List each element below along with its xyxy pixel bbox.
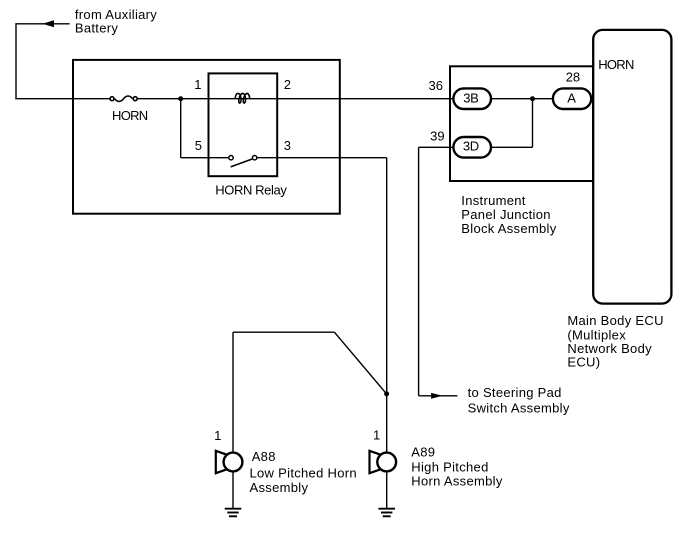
svg-text:ECU): ECU) bbox=[567, 355, 600, 370]
svg-text:36: 36 bbox=[429, 78, 443, 93]
svg-text:High Pitched: High Pitched bbox=[411, 459, 488, 474]
arrowhead pointing left (from Auxiliary Battery) bbox=[43, 20, 55, 27]
power box outline bbox=[73, 60, 340, 214]
wire: battery feed top horizontal bbox=[16, 23, 70, 25]
fuse HORN left terminal circle bbox=[110, 97, 114, 101]
arrowhead pointing right (to steering pad) bbox=[431, 393, 443, 399]
svg-text:Battery: Battery bbox=[75, 20, 118, 35]
relay switch left contact circle bbox=[229, 156, 233, 160]
svg-text:2: 2 bbox=[284, 77, 291, 92]
svg-text:HORN Relay: HORN Relay bbox=[215, 182, 287, 197]
svg-text:39: 39 bbox=[430, 129, 444, 144]
svg-text:Switch Assembly: Switch Assembly bbox=[468, 401, 570, 416]
wire: 3B to A bbox=[491, 98, 554, 100]
svg-text:Block Assembly: Block Assembly bbox=[461, 221, 556, 236]
svg-text:Main Body ECU: Main Body ECU bbox=[567, 313, 663, 328]
connector pill 3D bbox=[453, 137, 491, 158]
svg-text:1: 1 bbox=[214, 428, 221, 443]
junction node at horns branch bbox=[384, 391, 389, 396]
connector pill A bbox=[553, 88, 591, 109]
ground (high pitched horn) bbox=[378, 509, 395, 517]
relay coil bbox=[235, 93, 250, 103]
wire: low pitched horn to ground bbox=[232, 471, 234, 508]
junction node between 3B and A bbox=[530, 96, 535, 101]
horn A89 body circle bbox=[377, 453, 396, 472]
wire: vertical branch from junction down bbox=[180, 99, 182, 158]
svg-text:A88: A88 bbox=[252, 449, 276, 464]
horn A88 cone bbox=[216, 451, 229, 473]
wire: diagonal joining horns branch bbox=[334, 332, 386, 394]
svg-text:Low Pitched Horn: Low Pitched Horn bbox=[250, 466, 357, 481]
svg-text:HORN: HORN bbox=[112, 108, 148, 123]
horn A88 body circle bbox=[224, 453, 243, 472]
relay switch right contact circle bbox=[252, 156, 256, 160]
junction node at fuse output bbox=[178, 96, 183, 101]
wire: vertical from node down bbox=[532, 99, 534, 148]
wire: high pitched horn to ground bbox=[386, 471, 388, 508]
fuse HORN element (s-curve) bbox=[115, 96, 133, 101]
svg-text:A89: A89 bbox=[411, 444, 435, 459]
fuse HORN right terminal circle bbox=[133, 97, 137, 101]
wire: to steering pad switch assembly bbox=[419, 395, 458, 397]
svg-text:3: 3 bbox=[284, 138, 291, 153]
svg-text:3B: 3B bbox=[463, 90, 478, 105]
wire: low pitched horn top horizontal bbox=[233, 331, 334, 333]
ground (low pitched horn) bbox=[225, 509, 242, 517]
wire: branch to relay switch contact (pin 5) bbox=[181, 157, 228, 159]
relay box outline bbox=[209, 73, 278, 176]
wire: into 3D from pin 39 drop bbox=[419, 146, 455, 148]
svg-text:Horn Assembly: Horn Assembly bbox=[411, 474, 503, 489]
svg-text:Instrument: Instrument bbox=[461, 193, 526, 208]
svg-text:3D: 3D bbox=[463, 139, 479, 154]
wire: left vertical drop from battery feed bbox=[15, 23, 17, 99]
svg-text:to Steering Pad: to Steering Pad bbox=[468, 385, 562, 400]
wire: relay pin 3 out to horns branch bbox=[258, 157, 387, 159]
wire: vertical from relay pin 3 down to high pitched horn bbox=[386, 158, 388, 453]
wire: vertical down to low pitched horn bbox=[232, 332, 234, 453]
wire: vertical drop to steering pad switch takeoff bbox=[418, 147, 420, 395]
wire: horizontal from 3D to node branch bbox=[491, 146, 533, 148]
wire: main feed into fuse bbox=[15, 98, 109, 100]
svg-text:5: 5 bbox=[195, 138, 202, 153]
svg-text:28: 28 bbox=[566, 69, 580, 84]
wire: fuse to relay pin 1 and junction block pin 36 bbox=[138, 98, 455, 100]
svg-text:A: A bbox=[567, 90, 576, 105]
Main Body ECU box bbox=[593, 30, 671, 304]
svg-text:1: 1 bbox=[373, 427, 380, 442]
connector pill 3B bbox=[453, 88, 491, 109]
junction block outline (Instrument Panel Junction Block) bbox=[450, 66, 593, 181]
svg-text:HORN: HORN bbox=[598, 57, 634, 72]
svg-text:Assembly: Assembly bbox=[250, 480, 309, 495]
relay switch blade bbox=[231, 159, 253, 167]
horn A89 cone bbox=[370, 451, 383, 473]
svg-text:1: 1 bbox=[194, 77, 201, 92]
